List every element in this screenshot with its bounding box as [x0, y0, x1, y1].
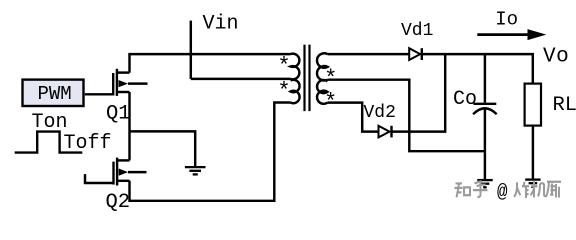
- wire PWM output to Q1 gate: [85, 93, 113, 95]
- svg-text:Toff: Toff: [64, 132, 112, 155]
- wire secondary center tap return: [328, 80, 485, 152]
- ground (RL): [525, 180, 540, 187]
- ground (midpoint): [185, 167, 206, 174]
- svg-text:Q1: Q1: [106, 103, 131, 126]
- transformer core: [305, 45, 310, 112]
- PWM controller block: [23, 80, 84, 106]
- resistor RL: [525, 84, 541, 126]
- wire secondary bottom to Vd2 anode: [328, 103, 379, 132]
- svg-text:Io: Io: [495, 9, 518, 31]
- current arrow Io: [477, 29, 546, 40]
- transformer secondary winding: [317, 53, 327, 104]
- transistor Q2: [114, 158, 147, 186]
- pulse waveform: [15, 132, 83, 153]
- wire secondary top to Vd1 anode: [328, 53, 410, 55]
- wire midpoint to ground: [130, 131, 196, 166]
- svg-text:@: @: [497, 181, 507, 203]
- transformer primary winding: [291, 54, 300, 103]
- wire Q2 source bottom return to primary bottom: [130, 103, 291, 201]
- diode Vd2: [379, 126, 392, 138]
- wire Vd2 cathode to output rail junction: [392, 54, 446, 132]
- node Vin : input line down to primary center tap: [191, 21, 291, 79]
- wire Q1 source to Q2 drain: [128, 92, 130, 160]
- svg-text:Vin: Vin: [203, 13, 239, 36]
- wire RL bottom to ground: [532, 126, 534, 179]
- wire Vd1 cathode along output rail to RL corner: [422, 54, 533, 84]
- svg-text:RL: RL: [553, 94, 576, 117]
- svg-text:Vo: Vo: [543, 45, 569, 68]
- wire Q1 drain up and top rail to transformer primary: [130, 54, 291, 73]
- transistor Q1: [113, 69, 147, 96]
- watermark zhihu (知乎@炸机厮 drawn as gray strokes): [455, 181, 562, 203]
- diode Vd1: [409, 48, 422, 60]
- svg-text:Vd2: Vd2: [364, 103, 396, 123]
- svg-text:Q2: Q2: [106, 191, 131, 214]
- svg-text:Co: Co: [453, 88, 477, 111]
- ground (Co): [477, 180, 492, 187]
- svg-text:PWM: PWM: [38, 83, 72, 105]
- svg-text:Vd1: Vd1: [401, 21, 433, 41]
- svg-text:*: *: [277, 79, 290, 104]
- capacitor Co: [473, 54, 497, 179]
- wire Q2 gate stub from driver: [85, 174, 114, 183]
- svg-text:*: *: [277, 54, 290, 79]
